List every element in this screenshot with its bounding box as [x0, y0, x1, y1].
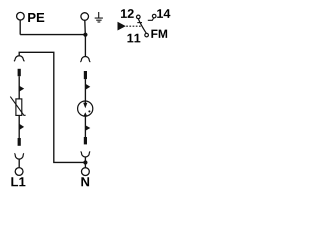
plug contact fork left: [14, 153, 24, 159]
wire fork stem right: [84, 157, 86, 167]
disconnect triangle left lower: [19, 124, 24, 130]
node PE junction: [83, 33, 87, 37]
contact 11: [145, 33, 149, 37]
disconnect triangle right upper: [85, 84, 90, 90]
terminal L1: [15, 168, 23, 176]
label 11: [127, 34, 140, 43]
plug pin bar bottom left: [18, 138, 21, 146]
actuator arrow FM: [118, 22, 126, 31]
dashed actuator link: [126, 25, 142, 27]
terminal N: [82, 168, 90, 176]
plug contact arc top left: [14, 56, 25, 61]
wire ground stem: [84, 20, 87, 34]
plug pin bar top right: [84, 71, 87, 79]
node N junction: [83, 160, 87, 164]
plug pin bar top left: [18, 69, 21, 76]
label 12: [121, 9, 134, 18]
spark gap top electrode: [84, 101, 86, 104]
plug contact fork right: [81, 152, 91, 158]
label 14: [157, 9, 170, 18]
contact 14: [152, 14, 156, 18]
spark gap U1: [78, 101, 93, 116]
spark gap gas dot: [88, 110, 90, 112]
wire PE bus: [20, 34, 85, 36]
spark gap bottom electrode: [84, 114, 86, 116]
varistor body: [16, 99, 22, 116]
lever FM: [138, 19, 146, 33]
terminal ground: [81, 13, 89, 21]
ground: [95, 12, 103, 22]
plug contact arc top right: [80, 56, 90, 61]
label FM: [151, 30, 167, 38]
disconnect triangle right lower: [85, 125, 90, 131]
label N: [81, 177, 89, 186]
wire left lower: [18, 115, 20, 138]
contact 14 hook: [148, 18, 154, 20]
contact 12: [137, 15, 141, 19]
label PE: [28, 13, 44, 22]
wire right lower: [84, 116, 86, 137]
terminal PE: [17, 12, 25, 20]
wire varistor top link: [19, 52, 85, 162]
contact 12 seat: [137, 22, 142, 24]
wire left upper: [18, 76, 20, 99]
label L1: [11, 177, 25, 186]
wire spark gap top: [84, 35, 86, 57]
varistor diagonal: [10, 97, 25, 116]
plug pin bar bottom right: [84, 137, 87, 144]
disconnect triangle left upper: [19, 86, 24, 92]
wire fork stem left: [18, 159, 20, 168]
wire right upper: [84, 79, 86, 101]
wire PE stem: [19, 20, 21, 34]
